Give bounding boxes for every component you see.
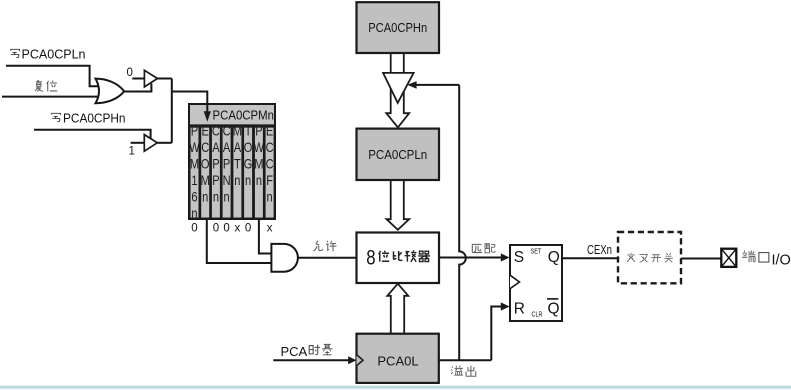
svg-text:n: n	[256, 173, 262, 188]
comparator 8位比较器	[357, 233, 440, 284]
wire: match output	[439, 257, 501, 259]
svg-text:6: 6	[191, 189, 197, 204]
svg-text:O: O	[201, 156, 210, 171]
svg-text:M: M	[190, 156, 199, 171]
svg-text:R: R	[514, 300, 525, 317]
svg-text:T: T	[234, 156, 241, 171]
arrowhead into S input	[501, 253, 510, 261]
svg-text:PCA0CPLn: PCA0CPLn	[22, 47, 86, 62]
svg-text:PCA0L: PCA0L	[377, 354, 418, 369]
svg-text:n: n	[224, 189, 230, 204]
svg-text:0: 0	[213, 223, 219, 235]
svg-text:1: 1	[129, 146, 135, 158]
svg-text:C: C	[201, 140, 209, 155]
port pin symbol ⊠	[721, 249, 736, 267]
wire: CPHn transfer shaft	[391, 53, 404, 73]
wire: or-gate output to buffer enable	[124, 84, 151, 92]
svg-text:0: 0	[245, 223, 251, 235]
wire: reset input	[2, 96, 99, 98]
svg-text:M: M	[233, 123, 242, 138]
buffer (set path, input 1)	[144, 135, 157, 152]
svg-text:A: A	[212, 140, 220, 155]
svg-text:P: P	[212, 173, 219, 188]
svg-text:W: W	[254, 140, 265, 155]
wire: write PCA0CPHn strobe	[34, 130, 151, 139]
wire: Q output CEXn	[563, 257, 619, 259]
svg-text:PCA0CPLn: PCA0CPLn	[368, 147, 427, 162]
wire: constant 0 input	[132, 78, 144, 80]
svg-text:P: P	[255, 123, 262, 138]
svg-text:C: C	[212, 123, 220, 138]
crossbar 交叉开关 (dashed)	[618, 232, 681, 283]
wire: crossbar to port	[681, 258, 721, 260]
wire: top buffer output	[157, 78, 171, 80]
wire: write PCA0CPLn strobe	[6, 66, 99, 86]
register PCA0CPMn	[189, 104, 275, 221]
hollow arrow PCA0L to comparator	[387, 284, 408, 334]
wire: PWMn bit to and-gate	[259, 219, 272, 254]
or-gate (write CPL + reset)	[96, 79, 125, 104]
svg-text:G: G	[244, 156, 253, 171]
hollow arrow into PCA0CPLn	[386, 89, 409, 128]
svg-text:n: n	[245, 173, 251, 188]
svg-text:n: n	[234, 173, 240, 188]
wire: enable to comparator	[298, 257, 357, 259]
svg-text:CLR: CLR	[532, 312, 543, 319]
svg-text:P: P	[212, 156, 219, 171]
svg-text:C: C	[223, 123, 231, 138]
wire: reload trigger from overflow	[416, 84, 460, 86]
svg-text:A: A	[223, 140, 231, 155]
svg-text:A: A	[234, 140, 242, 155]
wire: buffer output join	[171, 79, 173, 143]
svg-text:O: O	[244, 140, 253, 155]
register preset values 0 0 0 x 0 x	[191, 223, 272, 235]
arrowhead into R input	[501, 302, 510, 310]
svg-text:Q: Q	[548, 300, 560, 317]
buffer (reset path, input 0)	[144, 70, 157, 87]
svg-text:P: P	[191, 123, 198, 138]
hollow arrow CPLn to comparator	[387, 180, 410, 230]
arrowhead into PCA0L clock	[348, 356, 356, 364]
svg-text:C: C	[266, 156, 274, 171]
label PCA时基	[281, 344, 333, 359]
svg-text:8: 8	[366, 247, 375, 270]
svg-text:n: n	[202, 189, 208, 204]
svg-text:n: n	[213, 189, 219, 204]
svg-text:Q: Q	[548, 249, 560, 266]
svg-text:W: W	[189, 140, 200, 155]
flip-flop SR latch	[510, 245, 562, 321]
counter register PCA0L	[357, 334, 439, 383]
wire: ECOMn write path into register	[172, 92, 208, 112]
arrowhead into register	[204, 111, 211, 122]
svg-text:E: E	[202, 123, 209, 138]
label 复位	[35, 80, 57, 91]
wire: overflow output	[439, 359, 492, 361]
svg-text:0: 0	[127, 67, 133, 79]
register PCA0CPLn	[357, 129, 440, 180]
svg-text:T: T	[245, 123, 252, 138]
wire: R input from overflow	[491, 307, 501, 361]
svg-text:x: x	[267, 223, 273, 235]
wire: ECOMn bit to and-gate	[207, 219, 272, 263]
and-gate (enable)	[271, 244, 298, 272]
label 允许	[314, 241, 337, 252]
label 写PCA0CPLn	[11, 47, 86, 62]
svg-text:F: F	[266, 173, 273, 188]
svg-text:n: n	[267, 189, 273, 204]
svg-text:CEXn: CEXn	[587, 243, 612, 257]
bottom page border band	[0, 385, 791, 390]
svg-text:1: 1	[191, 173, 197, 188]
svg-text:N: N	[223, 173, 231, 188]
svg-text:SET: SET	[531, 248, 543, 255]
svg-text:P: P	[223, 156, 230, 171]
svg-text:n: n	[191, 206, 197, 221]
label 溢出	[451, 366, 476, 377]
svg-text:PCA0CPHn: PCA0CPHn	[63, 111, 126, 126]
wire: bottom buffer output	[157, 142, 172, 144]
svg-text:PCA0CPMn: PCA0CPMn	[213, 108, 275, 123]
svg-text:PCA0CPHn: PCA0CPHn	[368, 20, 427, 35]
svg-text:S: S	[514, 249, 524, 266]
label 端口I/O	[742, 250, 791, 268]
svg-text:0: 0	[191, 223, 197, 235]
svg-text:I/O: I/O	[772, 252, 791, 268]
register PCA0CPHn	[357, 2, 440, 53]
svg-text:E: E	[266, 123, 273, 138]
svg-text:C: C	[266, 140, 274, 155]
svg-text:0: 0	[223, 223, 229, 235]
svg-text:x: x	[235, 223, 241, 235]
wire: constant 1 input	[131, 142, 145, 144]
svg-text:M: M	[254, 156, 263, 171]
label 写PCA0CPHn	[52, 111, 126, 126]
wire: overflow feedback vertical with hop	[459, 85, 466, 360]
label 匹配	[472, 244, 495, 253]
wire: PCA timebase input	[273, 359, 348, 361]
transfer funnel triangle	[383, 73, 414, 103]
svg-text:PCA: PCA	[281, 344, 308, 359]
svg-text:M: M	[201, 173, 210, 188]
arrowhead: reload trigger into funnel	[407, 81, 416, 89]
